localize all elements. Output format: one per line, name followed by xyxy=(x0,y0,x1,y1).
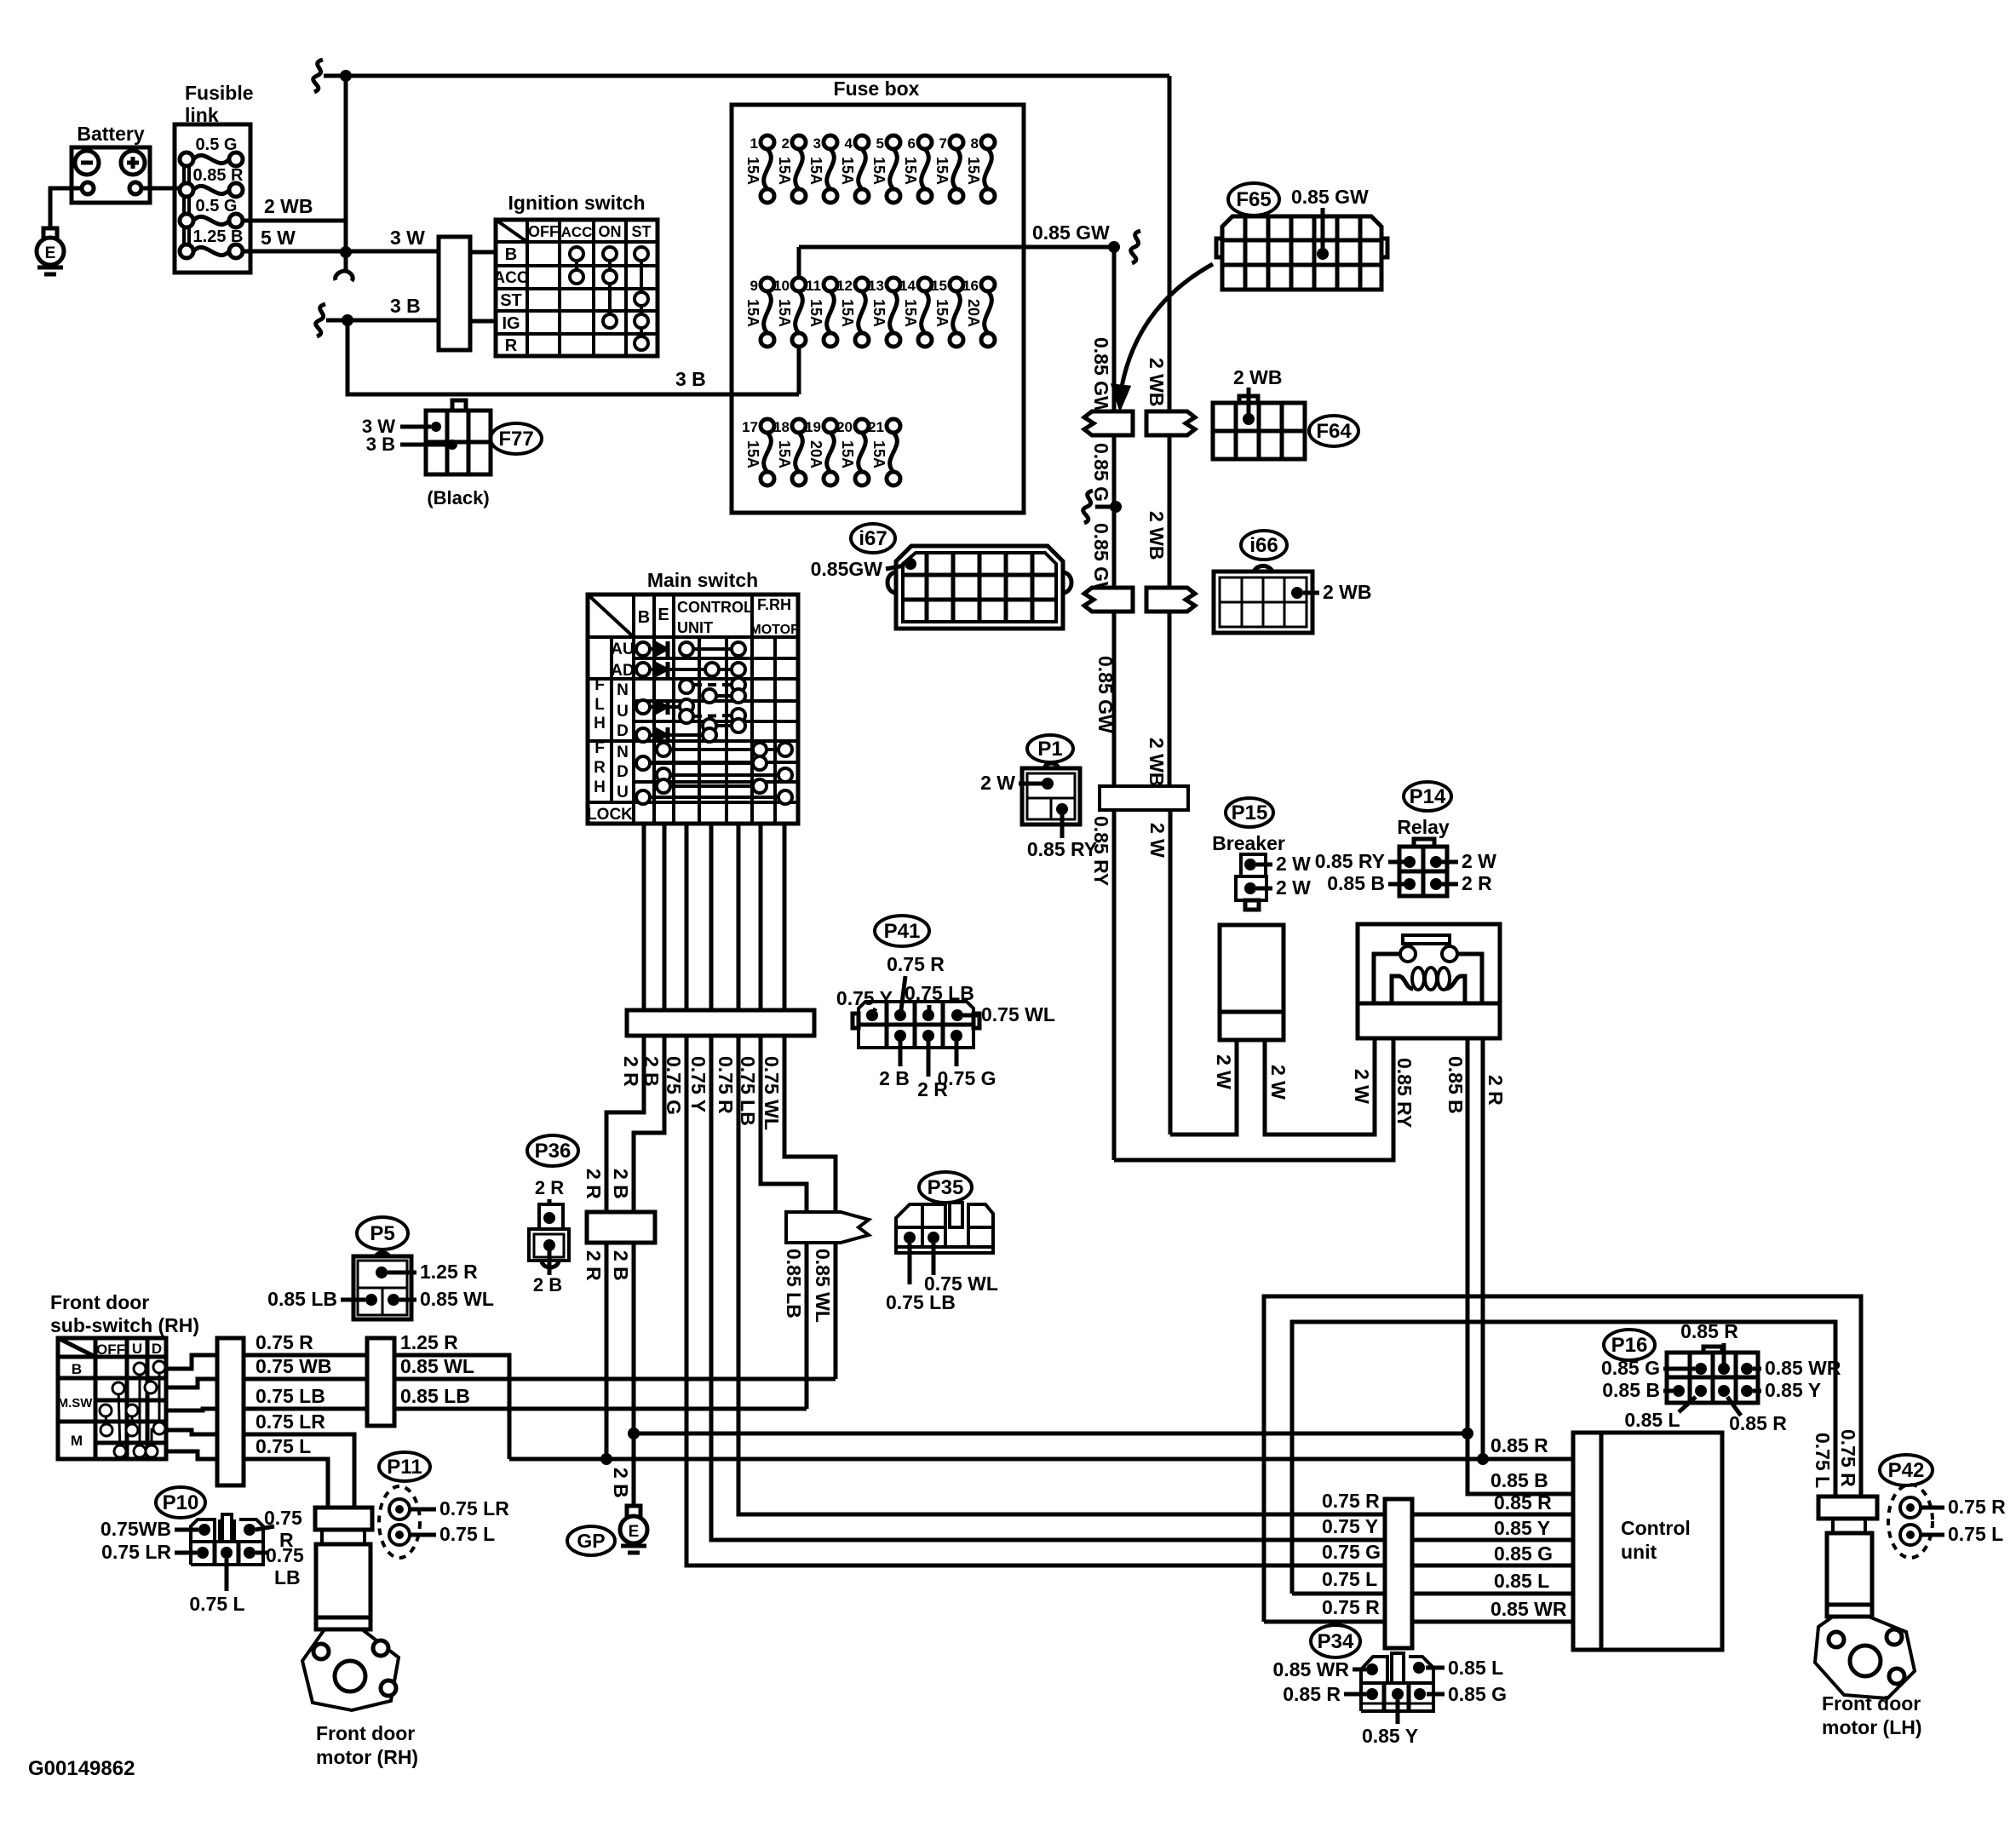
connector bar (ignition switch) xyxy=(439,237,470,350)
svg-text:L: L xyxy=(594,696,605,714)
fuse box xyxy=(732,105,1024,513)
svg-text:N: N xyxy=(617,744,629,761)
wire 0.85WR row xyxy=(1264,1620,1573,1624)
wire 0.75 L row xyxy=(244,1459,328,1508)
svg-text:0.85 LB: 0.85 LB xyxy=(400,1385,470,1407)
svg-text:8: 8 xyxy=(971,135,979,152)
wire bar to IG row xyxy=(470,319,496,324)
svg-text:3: 3 xyxy=(813,135,821,152)
svg-text:0.85GW: 0.85GW xyxy=(811,558,883,580)
node 0.85G junction xyxy=(1110,501,1122,513)
svg-text:0.75 R: 0.75 R xyxy=(1322,1596,1380,1618)
inline connector 2R/2B xyxy=(587,1212,655,1243)
main switch output wires xyxy=(642,824,646,1010)
battery xyxy=(72,147,150,203)
svg-text:motor (LH): motor (LH) xyxy=(1822,1716,1922,1738)
svg-text:0.85 GW: 0.85 GW xyxy=(1090,337,1112,415)
svg-text:0.85 B: 0.85 B xyxy=(1602,1379,1660,1401)
svg-text:0.85 G: 0.85 G xyxy=(1601,1357,1660,1379)
svg-text:0.75 Y: 0.75 Y xyxy=(836,987,893,1009)
svg-text:P16: P16 xyxy=(1611,1334,1648,1357)
svg-text:0.85 WL: 0.85 WL xyxy=(812,1249,834,1323)
inline connector (2WB lower) xyxy=(1146,588,1195,612)
svg-text:19: 19 xyxy=(805,419,821,435)
fuses 1-8 xyxy=(761,135,774,149)
svg-text:E: E xyxy=(45,244,56,262)
wire 0.75WL below bar xyxy=(784,1036,836,1212)
svg-text:U: U xyxy=(617,703,629,721)
wire 2R long xyxy=(509,1457,1483,1462)
svg-text:2 W: 2 W xyxy=(1462,850,1496,872)
wire 2B long xyxy=(634,1432,1467,1436)
loop wire 0.85L to motor LH 0.75L xyxy=(1292,1322,1835,1594)
svg-text:2 W: 2 W xyxy=(1351,1069,1373,1104)
svg-text:0.75 R: 0.75 R xyxy=(1837,1429,1859,1487)
svg-text:Fusible: Fusible xyxy=(185,82,254,104)
svg-text:F: F xyxy=(594,676,605,694)
svg-text:0.85 LB: 0.85 LB xyxy=(783,1249,805,1318)
wire bar to B row xyxy=(470,250,496,255)
svg-text:0.75: 0.75 xyxy=(266,1544,304,1566)
svg-text:Front door: Front door xyxy=(50,1291,149,1313)
svg-text:OFF: OFF xyxy=(96,1341,125,1358)
svg-text:R: R xyxy=(594,759,606,777)
wire 1.25 R xyxy=(394,1355,509,1459)
svg-text:15: 15 xyxy=(931,278,947,294)
svg-text:Fuse box: Fuse box xyxy=(834,78,920,100)
wire 2 W below xyxy=(1169,810,1173,1135)
svg-text:4: 4 xyxy=(845,135,853,152)
svg-text:2 B: 2 B xyxy=(879,1067,910,1089)
wire fuse10 internal xyxy=(797,247,801,278)
svg-text:P36: P36 xyxy=(535,1140,571,1163)
sub-switch contacts xyxy=(139,1369,141,1451)
wire 0.75LB below bar xyxy=(761,1036,807,1212)
svg-text:2 W: 2 W xyxy=(1276,853,1311,875)
svg-text:0.85 Y: 0.85 Y xyxy=(1494,1517,1550,1539)
wire 2W to breaker xyxy=(1170,1040,1237,1135)
svg-text:0.85 WL: 0.85 WL xyxy=(420,1288,494,1310)
wire 5 W / 3 W to ignition switch xyxy=(243,250,439,254)
svg-text:16: 16 xyxy=(962,278,979,294)
connector P35 xyxy=(919,1172,972,1203)
wide inline connector xyxy=(1100,786,1188,810)
svg-text:0.75 R: 0.75 R xyxy=(1322,1490,1380,1512)
svg-text:LB: LB xyxy=(274,1566,301,1588)
wire relay 2 R down xyxy=(1481,1038,1485,1459)
svg-text:MOTOR: MOTOR xyxy=(750,623,801,637)
svg-text:P34: P34 xyxy=(1318,1630,1354,1653)
top bus wire 2WB xyxy=(313,60,323,92)
svg-text:0.75 R: 0.75 R xyxy=(256,1331,313,1353)
svg-text:2 R: 2 R xyxy=(1485,1075,1507,1106)
svg-text:20A: 20A xyxy=(807,440,824,468)
wire breaker to relay 2W xyxy=(1265,1038,1375,1135)
wire 2 WB vertical xyxy=(1168,76,1172,786)
svg-text:H: H xyxy=(594,715,606,732)
node 5W junction xyxy=(340,246,352,258)
svg-text:ST: ST xyxy=(500,291,522,310)
svg-text:5: 5 xyxy=(876,135,884,152)
svg-text:Battery: Battery xyxy=(77,123,144,145)
front door motor LH xyxy=(1833,1519,1865,1533)
svg-text:0.85 R: 0.85 R xyxy=(1729,1412,1787,1434)
wire 0.75Y below bar xyxy=(711,1036,1573,1540)
svg-text:20A: 20A xyxy=(965,299,982,327)
inline connector 0.85LB/WL xyxy=(786,1212,869,1243)
wire 0.75 LB row xyxy=(244,1407,367,1411)
arrow F65 to connector xyxy=(1120,264,1213,397)
svg-text:2 WB: 2 WB xyxy=(1146,358,1168,407)
svg-text:i66: i66 xyxy=(1249,534,1278,557)
svg-text:0.85 L: 0.85 L xyxy=(1494,1570,1549,1592)
svg-text:motor (RH): motor (RH) xyxy=(316,1746,418,1768)
svg-text:2 B: 2 B xyxy=(610,1468,632,1498)
svg-text:F: F xyxy=(594,739,605,757)
inline connector (0.85GW lower) xyxy=(1084,588,1133,612)
svg-text:0.85 GW: 0.85 GW xyxy=(1291,186,1369,208)
svg-text:15A: 15A xyxy=(902,157,919,185)
fusible link xyxy=(175,124,250,273)
svg-text:P11: P11 xyxy=(387,1456,422,1479)
svg-text:H: H xyxy=(594,778,606,796)
svg-text:N: N xyxy=(617,681,629,699)
inline connector to LH motor xyxy=(1818,1496,1877,1519)
svg-text:P35: P35 xyxy=(928,1176,964,1199)
svg-text:2 WB: 2 WB xyxy=(264,195,313,217)
svg-text:21: 21 xyxy=(868,419,884,435)
svg-text:15A: 15A xyxy=(965,157,982,185)
svg-text:0.75 LR: 0.75 LR xyxy=(439,1497,509,1519)
svg-text:6: 6 xyxy=(908,135,916,152)
svg-text:P42: P42 xyxy=(1888,1459,1925,1482)
svg-text:5 W: 5 W xyxy=(261,227,296,249)
svg-text:0.85 R: 0.85 R xyxy=(1494,1491,1552,1514)
svg-text:2 B: 2 B xyxy=(610,1169,632,1199)
control unit xyxy=(1573,1433,1722,1650)
svg-text:U: U xyxy=(132,1341,142,1357)
svg-text:0.85 RY: 0.85 RY xyxy=(1027,838,1097,860)
svg-text:1.25 R: 1.25 R xyxy=(420,1261,478,1283)
svg-text:15A: 15A xyxy=(870,440,887,468)
wire battery negative to ground xyxy=(50,188,82,228)
wire 2R below bar xyxy=(606,1036,644,1459)
svg-text:P41: P41 xyxy=(884,920,921,943)
svg-text:2 B: 2 B xyxy=(640,1056,663,1087)
svg-text:U: U xyxy=(617,784,629,801)
svg-text:0.75 R: 0.75 R xyxy=(887,953,945,975)
wire 0.75 WB row xyxy=(244,1377,367,1382)
wire 0.85 LB long xyxy=(394,1407,807,1411)
svg-text:UNIT: UNIT xyxy=(677,619,713,636)
svg-text:2 WB: 2 WB xyxy=(1146,511,1168,560)
svg-text:15A: 15A xyxy=(807,157,824,185)
inline connector to RH motor xyxy=(315,1508,372,1530)
wire relay 0.85 B down xyxy=(1466,1038,1470,1494)
svg-text:E: E xyxy=(658,606,669,624)
wire 0.75R below bar xyxy=(738,1036,1573,1514)
svg-text:P10: P10 xyxy=(163,1491,199,1514)
connector P36 xyxy=(527,1135,578,1166)
svg-text:0.85 L: 0.85 L xyxy=(1624,1409,1680,1431)
main switch connector bar xyxy=(627,1010,814,1036)
svg-text:2 R: 2 R xyxy=(583,1250,605,1281)
inline connector (2WB) xyxy=(1146,411,1195,435)
svg-text:17: 17 xyxy=(742,419,758,435)
connector P16 xyxy=(1604,1330,1655,1360)
svg-text:0.85 Y: 0.85 Y xyxy=(1765,1379,1821,1401)
svg-text:B: B xyxy=(638,608,650,627)
svg-text:0.75 LB: 0.75 LB xyxy=(737,1056,759,1126)
wire 0.75 R row xyxy=(244,1353,367,1358)
svg-text:unit: unit xyxy=(1621,1541,1657,1563)
connector i66 xyxy=(1241,531,1287,560)
loop wire 0.85WR to motor LH 0.75R xyxy=(1264,1296,1861,1622)
svg-text:2 R: 2 R xyxy=(583,1169,605,1199)
svg-text:P15: P15 xyxy=(1232,801,1268,824)
svg-text:R: R xyxy=(505,336,518,355)
connector P11 xyxy=(379,1452,430,1481)
P34 inline bar xyxy=(1385,1499,1412,1648)
svg-text:0.85 WR: 0.85 WR xyxy=(1273,1658,1350,1680)
svg-text:G00149862: G00149862 xyxy=(28,1757,135,1780)
svg-text:15A: 15A xyxy=(839,440,856,468)
svg-text:LOCK: LOCK xyxy=(587,806,633,824)
connector P14 relay xyxy=(1404,782,1451,811)
front door motor RH xyxy=(322,1530,365,1544)
svg-text:3 W: 3 W xyxy=(390,227,425,249)
wire 0.85WL drop xyxy=(834,1243,838,1379)
svg-text:0.75 Y: 0.75 Y xyxy=(1322,1515,1378,1537)
svg-text:2 WB: 2 WB xyxy=(1146,738,1168,787)
connector P42 xyxy=(1880,1455,1933,1485)
svg-text:0.85 G: 0.85 G xyxy=(1090,443,1112,502)
svg-text:3 B: 3 B xyxy=(366,434,395,455)
svg-text:P14: P14 xyxy=(1410,785,1446,808)
wire 3 B to ignition switch xyxy=(316,304,325,336)
connector P41 xyxy=(875,916,929,946)
svg-text:15A: 15A xyxy=(933,157,951,185)
svg-text:7: 7 xyxy=(939,135,947,152)
svg-text:2 W: 2 W xyxy=(1213,1054,1235,1089)
svg-text:2 B: 2 B xyxy=(610,1250,632,1281)
svg-text:0.85 WL: 0.85 WL xyxy=(400,1355,474,1377)
svg-text:1.25 R: 1.25 R xyxy=(400,1331,458,1353)
svg-text:GP: GP xyxy=(577,1530,605,1552)
wire 0.85 RY loop to relay xyxy=(1114,1038,1393,1160)
svg-text:OFF: OFF xyxy=(528,223,559,240)
svg-text:0.85 R: 0.85 R xyxy=(1283,1683,1341,1705)
svg-text:15A: 15A xyxy=(744,299,761,327)
wire 0.75 LR row xyxy=(244,1434,354,1508)
svg-text:0.75 L: 0.75 L xyxy=(1812,1433,1834,1488)
svg-text:0.85 RY: 0.85 RY xyxy=(1315,850,1385,872)
svg-text:20: 20 xyxy=(836,419,853,435)
svg-text:0.75 L: 0.75 L xyxy=(1322,1568,1377,1590)
svg-text:IG: IG xyxy=(502,314,520,333)
svg-text:2: 2 xyxy=(782,135,790,152)
svg-text:15A: 15A xyxy=(776,299,793,327)
ground E (battery) xyxy=(43,228,57,239)
svg-text:2 R: 2 R xyxy=(535,1177,564,1198)
svg-text:E: E xyxy=(629,1523,640,1541)
svg-text:0.75 R: 0.75 R xyxy=(1948,1496,2006,1518)
svg-text:2 R: 2 R xyxy=(620,1056,642,1087)
svg-text:10: 10 xyxy=(773,278,790,294)
svg-text:0.75: 0.75 xyxy=(264,1507,302,1529)
svg-text:15A: 15A xyxy=(870,157,887,185)
svg-text:2 B: 2 B xyxy=(533,1274,562,1295)
sub-switch connector bar xyxy=(217,1338,244,1485)
svg-text:M.SW: M.SW xyxy=(58,1396,94,1410)
svg-text:D: D xyxy=(152,1341,162,1357)
svg-text:link: link xyxy=(185,104,219,126)
svg-text:0.85 B: 0.85 B xyxy=(1327,872,1385,894)
svg-text:0.85 G: 0.85 G xyxy=(1448,1683,1507,1705)
svg-text:Relay: Relay xyxy=(1397,816,1450,838)
svg-text:0.75 G: 0.75 G xyxy=(663,1056,685,1115)
svg-text:0.85 LB: 0.85 LB xyxy=(267,1288,337,1310)
svg-text:AD: AD xyxy=(611,662,634,680)
svg-text:0.85 R: 0.85 R xyxy=(1490,1434,1548,1456)
svg-text:3 B: 3 B xyxy=(675,368,706,390)
svg-text:11: 11 xyxy=(806,278,821,294)
connector P15 breaker xyxy=(1226,798,1273,827)
svg-text:15A: 15A xyxy=(870,299,887,327)
connector P1 xyxy=(1027,735,1073,762)
wire 0.85 GW from fuse box xyxy=(799,245,1114,250)
svg-text:15A: 15A xyxy=(902,299,919,327)
svg-text:0.85 B: 0.85 B xyxy=(1445,1056,1467,1114)
svg-text:2 W: 2 W xyxy=(1276,876,1311,899)
wire 0.75G below bar xyxy=(686,1036,1573,1565)
svg-text:0.85 RY: 0.85 RY xyxy=(1393,1058,1416,1128)
svg-text:0.75 L: 0.75 L xyxy=(256,1435,311,1457)
svg-text:15A: 15A xyxy=(776,157,793,185)
svg-text:B: B xyxy=(72,1361,82,1377)
wire 2 WB from fusible link xyxy=(243,219,346,223)
wire 2B below bar xyxy=(634,1036,664,1433)
svg-text:15A: 15A xyxy=(807,299,824,327)
svg-text:0.5 G: 0.5 G xyxy=(196,197,238,215)
svg-text:P1: P1 xyxy=(1037,738,1062,761)
svg-text:12: 12 xyxy=(836,278,853,294)
svg-text:D: D xyxy=(617,722,629,740)
wire battery positive to fusible link xyxy=(141,187,187,191)
svg-text:1: 1 xyxy=(750,135,758,152)
fuses 17-21 xyxy=(761,419,774,433)
svg-text:Breaker: Breaker xyxy=(1212,832,1285,854)
svg-text:AU: AU xyxy=(611,641,634,658)
svg-text:0.85 B: 0.85 B xyxy=(1490,1469,1548,1491)
inline connector (0.85GW) xyxy=(1084,411,1133,435)
svg-text:0.75 WB: 0.75 WB xyxy=(256,1355,331,1377)
svg-text:2 WB: 2 WB xyxy=(1323,581,1372,603)
svg-text:0.75 G: 0.75 G xyxy=(1322,1541,1381,1563)
svg-text:ON: ON xyxy=(599,223,622,240)
wire 0.85B row into control unit xyxy=(1467,1433,1573,1494)
connector F65 xyxy=(1228,183,1279,215)
svg-text:0.85 WR: 0.85 WR xyxy=(1765,1357,1841,1379)
svg-text:0.75 L: 0.75 L xyxy=(1948,1523,2003,1545)
wire 0.85 GW vertical xyxy=(1112,247,1117,411)
svg-text:ACC: ACC xyxy=(561,224,593,240)
svg-text:0.75 WL: 0.75 WL xyxy=(981,1003,1055,1025)
svg-text:2 W: 2 W xyxy=(1146,823,1169,858)
svg-text:0.75 WL: 0.75 WL xyxy=(924,1272,998,1295)
svg-text:0.75 LB: 0.75 LB xyxy=(256,1385,325,1407)
sub-switch stubs to bar xyxy=(166,1355,217,1369)
svg-text:M: M xyxy=(71,1433,83,1449)
svg-text:Front door: Front door xyxy=(316,1722,415,1744)
svg-text:0.85 Y: 0.85 Y xyxy=(1362,1725,1418,1747)
svg-text:Front door: Front door xyxy=(1822,1692,1921,1715)
svg-text:0.75 WL: 0.75 WL xyxy=(761,1056,783,1130)
svg-text:F64: F64 xyxy=(1316,420,1352,443)
connector P34 xyxy=(1311,1625,1360,1657)
fuses 9-16 xyxy=(761,278,774,291)
svg-text:0.85 R: 0.85 R xyxy=(1680,1320,1738,1342)
svg-text:2 WB: 2 WB xyxy=(1233,366,1283,388)
wire 0.85R row into control unit xyxy=(1483,1457,1573,1462)
svg-text:0.75 R: 0.75 R xyxy=(715,1056,737,1114)
breaker box xyxy=(1220,925,1284,1040)
svg-text:F65: F65 xyxy=(1236,188,1271,211)
svg-text:0.75 L: 0.75 L xyxy=(189,1593,244,1615)
wire 3 B down to fuse box xyxy=(347,320,799,394)
wire 0.85LB drop xyxy=(805,1243,809,1409)
svg-text:F.RH: F.RH xyxy=(757,596,791,613)
svg-text:ST: ST xyxy=(631,223,651,240)
svg-text:0.75 Y: 0.75 Y xyxy=(687,1056,709,1112)
svg-text:15A: 15A xyxy=(839,299,856,327)
svg-text:i67: i67 xyxy=(859,527,887,550)
svg-text:3 B: 3 B xyxy=(390,295,421,317)
svg-text:0.75 G: 0.75 G xyxy=(937,1067,996,1089)
svg-text:0.75 LR: 0.75 LR xyxy=(256,1410,325,1433)
main switch contacts xyxy=(636,642,650,656)
wire 2B junction node xyxy=(628,1428,640,1439)
svg-text:P5: P5 xyxy=(370,1222,394,1245)
svg-text:14: 14 xyxy=(899,278,916,294)
svg-text:ACC: ACC xyxy=(493,269,528,287)
svg-text:0.85 GW: 0.85 GW xyxy=(1094,656,1117,733)
node top bus xyxy=(340,70,352,82)
svg-text:Ignition switch: Ignition switch xyxy=(508,192,646,214)
svg-text:sub-switch (RH): sub-switch (RH) xyxy=(50,1314,199,1336)
connector P10 xyxy=(156,1487,205,1518)
svg-text:0.75WB: 0.75WB xyxy=(101,1518,171,1540)
svg-text:(Black): (Black) xyxy=(427,487,489,508)
connector bar 2 xyxy=(367,1338,394,1426)
svg-text:15A: 15A xyxy=(839,157,856,185)
svg-text:0.75 L: 0.75 L xyxy=(439,1523,495,1545)
svg-text:15A: 15A xyxy=(776,440,793,468)
svg-text:9: 9 xyxy=(750,278,758,294)
svg-text:F77: F77 xyxy=(498,428,533,451)
svg-text:B: B xyxy=(505,245,517,264)
svg-text:0.85 L: 0.85 L xyxy=(1448,1657,1503,1679)
relay box xyxy=(1358,924,1500,1038)
svg-text:D: D xyxy=(617,763,629,781)
svg-text:2 R: 2 R xyxy=(1462,872,1492,894)
svg-text:2 W: 2 W xyxy=(1267,1065,1289,1100)
svg-text:Control: Control xyxy=(1621,1517,1691,1539)
connector i67 xyxy=(851,524,895,553)
svg-text:Main switch: Main switch xyxy=(647,569,758,591)
svg-text:2 W: 2 W xyxy=(980,772,1015,794)
svg-text:15A: 15A xyxy=(744,440,761,468)
